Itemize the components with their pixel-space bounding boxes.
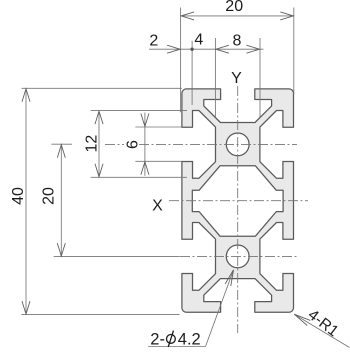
svg-text:8: 8	[233, 32, 242, 49]
extension line x=215.4 for 4/8	[214, 38, 216, 118]
dim line 20 left	[60, 144, 62, 256]
arrow 6 bottom (pointing up)	[141, 162, 149, 175]
underline of 2-phi4.2 label	[148, 346, 206, 348]
svg-text:X: X	[152, 197, 163, 214]
leader line to bottom hole	[206, 270, 234, 347]
dim line 40	[25, 88, 27, 314]
phi symbol	[167, 331, 176, 347]
extension line 6 bottom	[135, 160, 182, 162]
leader arrow at hole	[225, 270, 233, 286]
centerline X axis	[169, 200, 308, 202]
extension line 6 top	[135, 126, 182, 128]
extension line x=259.9 for 8	[259, 38, 261, 118]
arrow 6 top (pointing down)	[141, 114, 149, 127]
arrow 20L top	[57, 145, 65, 158]
svg-text:4: 4	[194, 32, 203, 49]
svg-text:6: 6	[125, 140, 142, 149]
white mask under 6 text	[124, 136, 139, 153]
extension line at cell2 center	[54, 256, 180, 258]
centerline cell2 (bottom hole)	[180, 255, 297, 257]
extension line top for 40	[22, 87, 182, 89]
arrow 2 pointing right	[167, 45, 180, 53]
extension line x=192 for 2/4	[191, 41, 193, 105]
dim line 12	[98, 111, 100, 178]
arrow 40 bottom	[22, 301, 30, 314]
dim line 6 with outside arrows	[144, 113, 146, 176]
centerline cell1 (top hole)	[105, 143, 297, 145]
arrowheads	[22, 12, 310, 326]
arrow 20 right	[280, 12, 293, 20]
leader arrow at corner	[294, 314, 310, 325]
svg-text:4.2: 4.2	[178, 330, 201, 348]
bottom hole phi4.2	[226, 245, 249, 268]
extension line bottom for 40	[22, 314, 180, 316]
dot separator for 4 dim	[190, 48, 193, 51]
dim line 20 top	[181, 15, 294, 17]
svg-text:Y: Y	[231, 70, 242, 87]
svg-text:40: 40	[10, 187, 27, 205]
extension tick at cell1 center	[51, 143, 72, 145]
extension line left of 20 dim	[180, 8, 182, 113]
central octagonal cavity	[192, 166, 283, 236]
arrow 12 bottom	[95, 164, 103, 177]
svg-text:12: 12	[84, 135, 101, 153]
arrow 40 top	[22, 89, 30, 102]
svg-text:20: 20	[41, 187, 58, 205]
extension line right of 20 dim	[293, 8, 295, 95]
svg-text:2: 2	[149, 32, 158, 49]
svg-text:20: 20	[225, 0, 243, 15]
centerline Y axis	[237, 86, 239, 333]
dim line 2/4/8 row	[149, 48, 264, 50]
arrow 20 left	[181, 12, 194, 20]
arrow 8 left	[216, 45, 229, 53]
arrow 12 top	[95, 111, 103, 124]
aluminum extrusion profile cross-section	[182, 89, 294, 312]
svg-text:2-: 2-	[150, 330, 165, 348]
arrow 8 right	[247, 45, 260, 53]
extension line 12 bottom	[91, 176, 187, 178]
leader line 4-R1	[294, 314, 349, 347]
center lines	[105, 86, 308, 333]
top hole phi4.2	[226, 133, 249, 156]
arrow 20L bottom	[57, 243, 65, 256]
extension line 12 top	[91, 110, 187, 112]
